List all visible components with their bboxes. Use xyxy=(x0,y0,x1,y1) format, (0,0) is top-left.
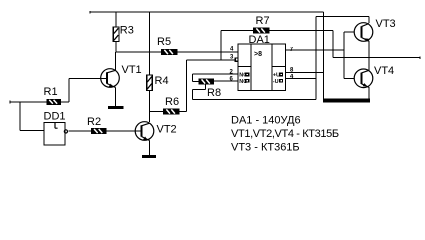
wire rail drop to R3 xyxy=(115,12,117,27)
wire junction down to R4 xyxy=(149,52,151,75)
resistor R2 xyxy=(87,116,106,133)
transistor VT2 xyxy=(135,122,176,155)
svg-text:VT3: VT3 xyxy=(376,18,396,30)
svg-text:R7: R7 xyxy=(256,15,270,27)
wire DA1 +U to rail xyxy=(286,72,324,74)
wire R2 to VT2 base xyxy=(106,130,142,132)
wire top supply rail xyxy=(90,11,324,14)
wire bottom bus xyxy=(193,98,317,100)
wire rail right drop xyxy=(323,12,325,100)
wire VT4 base xyxy=(344,77,354,79)
op-amp DA1 xyxy=(238,34,286,91)
transistor VT3 xyxy=(354,18,395,71)
svg-text:R1: R1 xyxy=(44,86,58,98)
svg-text:VT3 - КТ361Б: VT3 - КТ361Б xyxy=(231,142,300,154)
svg-text:DD1: DD1 xyxy=(44,111,66,123)
wire R6 left xyxy=(150,111,164,113)
ground VT2 xyxy=(142,155,156,158)
wire DA1 pin2 xyxy=(193,74,239,82)
DA1 pin number 6 (null correction) xyxy=(230,77,234,83)
svg-text:-U: -U xyxy=(273,79,279,85)
DA1 pin number 7 (output) xyxy=(290,47,294,53)
svg-text:R8: R8 xyxy=(207,87,221,99)
wire R4 bottom to VT2 collector xyxy=(149,91,151,123)
svg-text:VT2: VT2 xyxy=(157,124,177,136)
svg-text:R2: R2 xyxy=(87,116,101,128)
wire R3 bottom to junction xyxy=(115,42,117,53)
wire negative bus vertical xyxy=(315,17,317,100)
note text line 2 xyxy=(231,128,339,140)
wire R6 right up to inverting node xyxy=(179,60,186,112)
wire node line to DA1 pin4 (through R5) xyxy=(116,51,238,53)
wire output line xyxy=(333,56,421,59)
wire DA1 -U to negative bus xyxy=(286,78,317,80)
svg-text:>8: >8 xyxy=(254,51,262,58)
svg-text:VT1,VT2,VT4 - КТ315Б: VT1,VT2,VT4 - КТ315Б xyxy=(231,128,339,140)
svg-text:R6: R6 xyxy=(165,96,179,108)
wire VT3 collector top xyxy=(316,17,369,24)
svg-text:R3: R3 xyxy=(120,25,134,37)
resistor R7 xyxy=(254,15,270,33)
note text line 3 xyxy=(231,142,300,154)
svg-text:DA1 - 140УД6: DA1 - 140УД6 xyxy=(231,114,301,126)
ground VT1 xyxy=(108,106,124,109)
wire DD1 out to R2 xyxy=(68,130,91,132)
resistor R6 xyxy=(164,96,180,114)
wire input down to DD1 xyxy=(20,102,44,131)
DA1 pin number 8 (+U supply) xyxy=(290,68,294,74)
transistor VT1 xyxy=(101,52,142,106)
wire R7 left vertical xyxy=(220,31,222,61)
wire input terminal xyxy=(10,101,47,104)
svg-text:DA1: DA1 xyxy=(249,34,270,46)
trimmer R8 xyxy=(193,79,239,99)
note text line 1 xyxy=(231,114,301,126)
svg-text:R4: R4 xyxy=(155,75,169,87)
DA1 pin number 4 (non-inverting input) xyxy=(230,47,234,53)
wire VT3 base xyxy=(344,31,354,33)
svg-text:VT4: VT4 xyxy=(374,65,394,77)
wire R7 left horizontal xyxy=(221,30,254,32)
svg-text:VT1: VT1 xyxy=(122,64,142,76)
wire R1 right up to VT1 base xyxy=(61,79,108,103)
wire rail drop at x150 xyxy=(149,12,151,52)
resistor R1 xyxy=(44,86,61,104)
resistor R3 xyxy=(113,25,134,42)
DA1 pin number 2 (null correction) xyxy=(230,70,234,76)
wire VT4 emitter return xyxy=(323,87,370,102)
svg-text:R5: R5 xyxy=(157,36,171,48)
resistor R5 xyxy=(157,36,177,55)
svg-text:+U: +U xyxy=(273,73,280,79)
resistor R4 xyxy=(147,75,169,91)
DA1 pin number 3 (inverting input) xyxy=(230,54,234,60)
inverting input square marker xyxy=(235,58,238,61)
wire R7 right to output drop xyxy=(269,31,333,58)
wire DA1 output pin7 to bases xyxy=(286,32,345,78)
wire inverting node to DA1 pin3 xyxy=(186,59,235,61)
logic element DD1 xyxy=(44,111,68,146)
DA1 pin number 4 (-U supply) xyxy=(290,74,294,80)
transistor VT4 xyxy=(354,65,394,88)
